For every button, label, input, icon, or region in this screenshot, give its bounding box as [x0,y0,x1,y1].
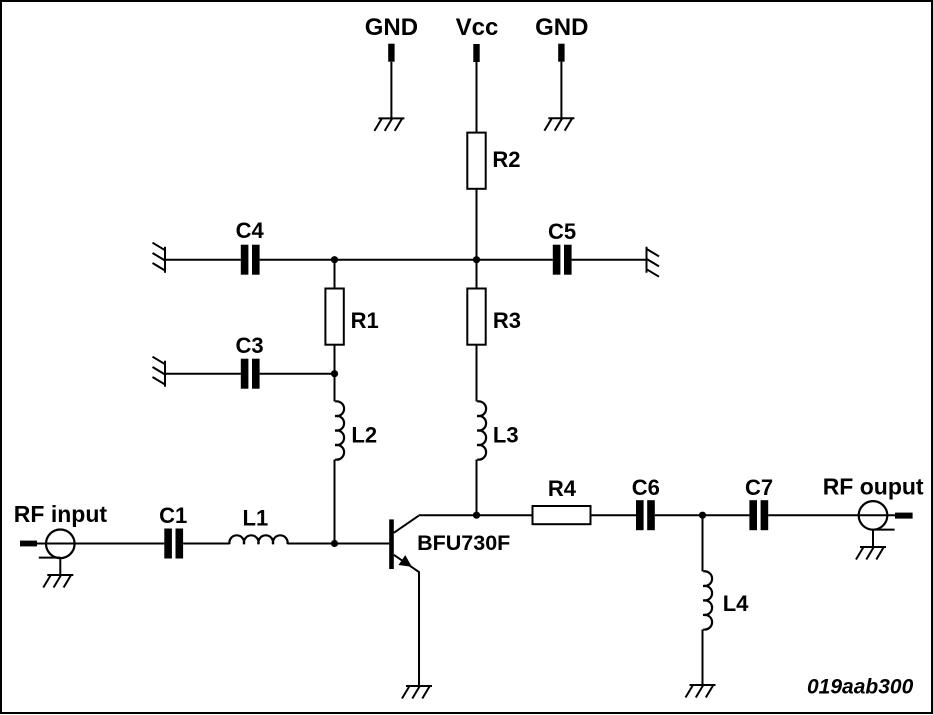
svg-text:L4: L4 [723,591,749,616]
svg-text:R3: R3 [493,308,521,333]
svg-text:R1: R1 [351,308,379,333]
svg-text:L1: L1 [243,505,269,530]
svg-text:C1: C1 [159,503,187,528]
svg-text:C5: C5 [548,219,576,244]
svg-text:C4: C4 [236,218,265,243]
svg-text:L3: L3 [493,423,519,448]
svg-text:019aab300: 019aab300 [807,676,914,699]
svg-text:GND: GND [365,14,418,41]
svg-text:L2: L2 [351,423,377,448]
svg-text:Vcc: Vcc [456,14,499,41]
svg-text:C3: C3 [235,333,263,358]
svg-text:C7: C7 [745,475,773,500]
svg-text:RF input: RF input [14,501,108,527]
svg-text:C6: C6 [632,475,660,500]
svg-text:R2: R2 [492,147,520,172]
svg-text:R4: R4 [548,476,577,501]
svg-text:BFU730F: BFU730F [417,531,510,555]
svg-text:GND: GND [535,14,588,41]
svg-text:RF ouput: RF ouput [823,474,924,500]
